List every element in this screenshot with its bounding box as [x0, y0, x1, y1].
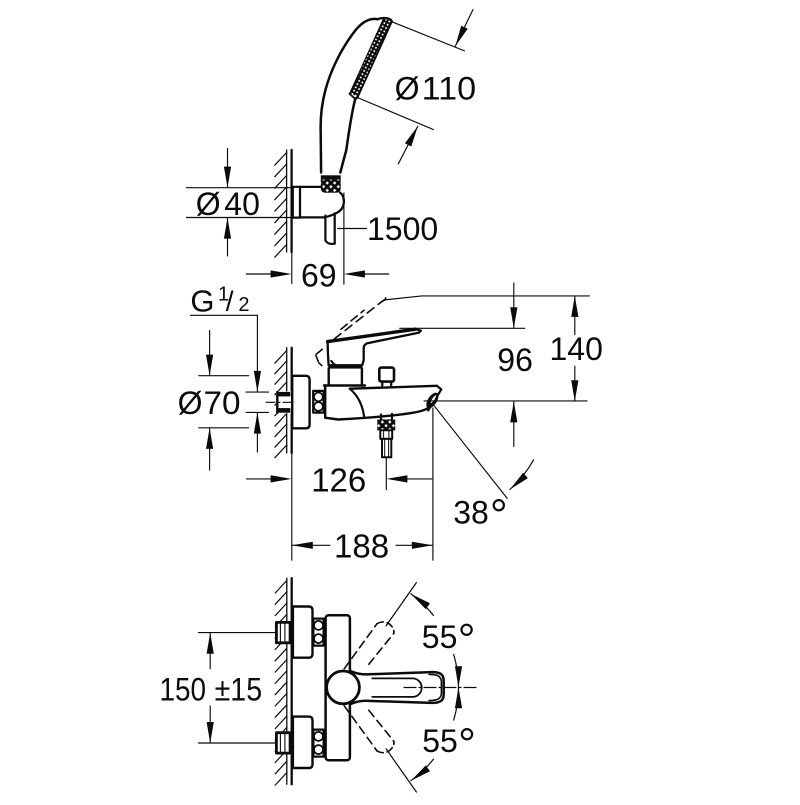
spout body junction curve — [350, 389, 364, 417]
angle 55 lower arc arrow at centre line — [454, 687, 459, 720]
upper connection centre line — [198, 632, 276, 634]
hand shower face edge line — [358, 22, 392, 98]
spout aerator — [424, 391, 441, 411]
svg-text:Ø: Ø — [395, 71, 420, 107]
body and spout bottom edge — [325, 408, 428, 419]
angle 55 lower arc arrow at slant — [411, 759, 434, 781]
shower hose right edge — [334, 213, 336, 243]
lower escutcheon (top view) — [293, 717, 313, 768]
hand shower tip cap — [378, 18, 392, 22]
svg-text:40: 40 — [224, 186, 260, 222]
shower hose left edge — [324, 216, 326, 241]
hand shower face band inner edge — [350, 18, 384, 93]
dimension Ø110 upper arrow — [455, 10, 473, 47]
angle 55 lower slant line — [386, 749, 416, 792]
svg-text:69: 69 — [301, 257, 337, 293]
angle 38 slant line — [433, 405, 507, 499]
hand shower left contour — [321, 19, 378, 173]
dimension Ø70 extension lines — [199, 376, 249, 428]
mixer body silhouette — [325, 385, 441, 419]
G1/2 up arrow — [256, 413, 258, 452]
svg-text:55: 55 — [422, 723, 458, 759]
extension line spout outlet level — [424, 400, 587, 402]
lever handle (top view) — [351, 671, 443, 703]
svg-text:96: 96 — [497, 342, 533, 378]
wall (top view) back line — [286, 578, 288, 784]
lever pivot arc — [331, 361, 342, 367]
hand shower body fill — [321, 18, 392, 173]
G1/2 tick lines — [246, 392, 269, 412]
angle 55 upper arc arrow at slant — [411, 594, 434, 616]
inlet pipe left edge — [276, 392, 278, 413]
upper inlet thread nut — [276, 622, 290, 642]
lever raised position dashed bottom edge — [334, 301, 382, 339]
hand shower handle right edge — [340, 97, 357, 172]
lower union nut (top view) — [313, 730, 323, 757]
dimension 126 left arrow — [246, 478, 271, 480]
dimension 69 line left arrow — [246, 273, 271, 275]
angle 38 arc arrow — [510, 460, 534, 490]
diverter knob neck — [382, 382, 391, 386]
dimension Ø110 lower arrow — [398, 126, 418, 164]
inlet pipe centre line — [266, 401, 311, 403]
dimension Ø70 lower arrow — [209, 428, 211, 470]
dimension Ø40 extension line upper — [187, 187, 294, 189]
escutcheon (side view) — [292, 376, 309, 429]
handle base black band — [328, 365, 362, 368]
cartridge housing right edge — [361, 368, 363, 385]
inlet pipe G1/2 upper thread — [277, 392, 290, 397]
svg-text:1500: 1500 — [367, 211, 438, 247]
dimension 69 extension line — [343, 193, 345, 284]
handle axis centre line — [404, 687, 478, 689]
lever raised position dashed tip — [382, 296, 385, 301]
lever raised position dashed back corner — [316, 349, 322, 365]
angle 55 upper slant line — [386, 583, 416, 626]
mixer body (top view) — [326, 615, 350, 760]
wall surface extension below (69) — [291, 252, 293, 284]
dimension 188 left arrow — [292, 544, 330, 546]
svg-text:70: 70 — [204, 385, 241, 421]
dimension Ø40 lower arrow — [227, 218, 229, 256]
svg-text:/: / — [226, 286, 234, 317]
mixer body left edge — [324, 385, 326, 417]
wall hatching (shower holder) — [275, 153, 287, 258]
dimension Ø110 extension line lower — [358, 98, 434, 130]
extension line raised lever top (140) — [384, 296, 590, 300]
lower connection centre line — [198, 742, 276, 744]
hose outlet knurled nut — [377, 419, 395, 430]
shower holder body top edge — [300, 186, 322, 188]
svg-text:188: 188 — [334, 528, 389, 565]
hose outlet threaded nipple — [382, 439, 391, 457]
inlet pipe G1/2 lower thread — [277, 408, 290, 413]
upper union nut (top view) — [313, 619, 323, 646]
dimension Ø40 extension line lower — [187, 217, 294, 219]
dimension 69 line right arrow — [365, 273, 389, 275]
svg-text:140: 140 — [550, 331, 603, 367]
lever knob ball (top view) — [327, 671, 360, 704]
shower hose cut end — [325, 240, 334, 244]
lever tip end-cap inner line — [429, 674, 441, 700]
dimension 150 lower arrow — [209, 706, 211, 743]
wall hatching (mixer side view) — [275, 351, 287, 458]
svg-text:±15: ±15 — [215, 672, 263, 708]
shower holder wall plate — [293, 187, 300, 218]
mixer body top edge — [324, 384, 365, 386]
raised lever dashed outline upper (top view) — [344, 624, 377, 669]
angle 55 upper arc arrow at centre line — [454, 655, 459, 688]
hose outlet collar — [380, 430, 392, 439]
svg-text:Ø: Ø — [178, 385, 203, 421]
wall (top view) surface line — [291, 578, 293, 784]
dimension 126 right arrow — [407, 478, 432, 480]
diverter knob — [379, 368, 394, 382]
dimension 96 upper arrow — [513, 283, 515, 328]
dimension 96 lower arrow — [513, 402, 515, 447]
svg-text:2: 2 — [238, 294, 249, 316]
union nut (side view) — [313, 391, 323, 413]
shower holder ball end — [324, 193, 344, 218]
hand shower spray face band — [350, 18, 392, 97]
G1/2 leader vertical with down arrow — [256, 315, 258, 392]
dimension 150 upper arrow — [209, 633, 211, 669]
dimension 188 right arrow — [396, 544, 433, 546]
lever top edge accent — [328, 329, 416, 341]
svg-text:55: 55 — [422, 619, 458, 655]
svg-text:110: 110 — [422, 71, 477, 107]
raised lever dashed outline lower (top view) — [344, 706, 377, 751]
svg-text:126: 126 — [311, 461, 366, 498]
wall (mixer side view) back line — [286, 348, 288, 453]
hose nut black cap — [321, 175, 341, 180]
extension line lever top (96) — [400, 327, 525, 329]
dimension 126 extension line — [385, 458, 387, 490]
dimension 188 extension line (spout tip) — [432, 408, 434, 560]
svg-text:G: G — [190, 284, 214, 319]
hose nut knurled band — [321, 180, 341, 193]
lever raised position dashed top edge — [341, 310, 364, 329]
spout tip cut face — [428, 386, 441, 411]
hose outlet neck — [381, 414, 392, 420]
lever handle (rest position) — [328, 329, 421, 365]
wall (mixer side view) surface line — [291, 348, 293, 453]
leader line 1500 — [338, 228, 367, 230]
dimension Ø40 upper arrow — [227, 149, 229, 188]
upper escutcheon (top view) — [293, 607, 313, 658]
inlet pipe backing — [276, 391, 292, 413]
G1/2 leader underline — [191, 314, 258, 316]
dimension 140 lower arrow — [574, 366, 576, 401]
spout top edge — [350, 386, 437, 389]
svg-text:150: 150 — [160, 672, 207, 708]
wall surface extension line down to 188 — [291, 453, 293, 560]
dimension Ø110 extension line upper — [392, 22, 465, 51]
wall (shower holder) surface line — [290, 150, 292, 252]
dimension 140 upper arrow — [574, 296, 576, 335]
dimension Ø70 upper arrow — [209, 331, 211, 376]
hand shower face bottom lip — [349, 94, 355, 100]
cartridge housing left edge — [328, 368, 330, 385]
shower holder body bottom edge — [300, 216, 324, 218]
wall (shower holder) back line — [286, 150, 288, 252]
lower inlet thread nut — [276, 733, 290, 753]
svg-text:Ø: Ø — [196, 186, 221, 222]
lever grip inner contour — [372, 678, 421, 697]
wall hatching (top view) — [275, 581, 287, 786]
svg-text:38: 38 — [453, 495, 489, 531]
